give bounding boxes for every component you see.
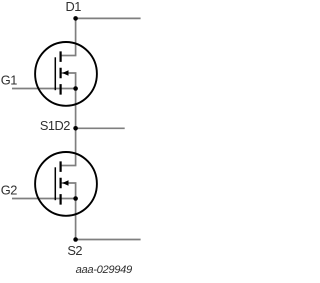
svg-text:D1: D1 [66,0,82,14]
svg-text:S1D2: S1D2 [40,118,70,133]
svg-text:aaa-029949: aaa-029949 [76,264,132,276]
svg-text:S2: S2 [67,243,82,258]
svg-text:G2: G2 [1,182,17,197]
svg-text:G1: G1 [1,72,17,87]
